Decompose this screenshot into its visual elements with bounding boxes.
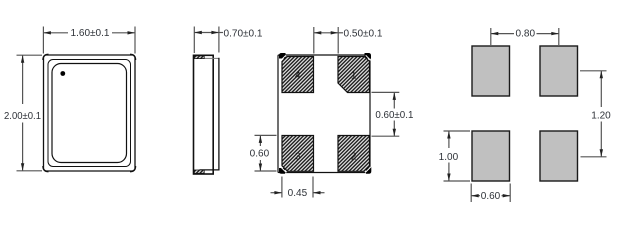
svg-text:2: 2 (351, 151, 357, 162)
svg-text:1.00: 1.00 (439, 152, 459, 163)
svg-text:4: 4 (295, 71, 301, 82)
svg-text:0.70±0.1: 0.70±0.1 (224, 29, 263, 40)
svg-text:1.20: 1.20 (591, 111, 611, 122)
svg-text:2.00±0.1: 2.00±0.1 (4, 111, 41, 122)
svg-text:1.60±0.1: 1.60±0.1 (71, 28, 110, 39)
svg-text:0.45: 0.45 (288, 188, 308, 199)
svg-text:3: 3 (295, 151, 301, 162)
svg-text:1: 1 (351, 71, 357, 82)
svg-text:0.60: 0.60 (481, 191, 501, 202)
svg-text:0.60: 0.60 (250, 149, 270, 160)
svg-text:0.80: 0.80 (516, 28, 536, 39)
svg-text:0.50±0.1: 0.50±0.1 (344, 29, 383, 40)
svg-text:0.60±0.1: 0.60±0.1 (375, 110, 413, 121)
